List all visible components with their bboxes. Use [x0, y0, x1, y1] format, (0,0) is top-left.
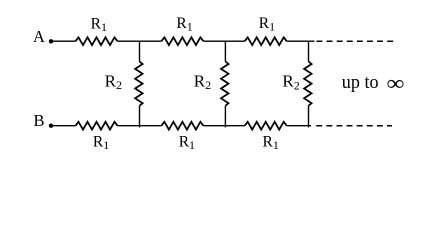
wire top rail segment R1a to R1b [118, 40, 162, 42]
svg-text:up to: up to [342, 71, 379, 93]
wire top rail segment A to R1a [51, 40, 76, 42]
wire vertical stub J1 top [139, 41, 141, 61]
resistor R2 right [304, 62, 312, 106]
dashed continuation top rail [317, 40, 394, 42]
wire vertical stub J2 top [224, 41, 226, 61]
resistor R2 middle [221, 62, 229, 106]
svg-text:B: B [34, 111, 45, 130]
svg-text:∞: ∞ [387, 72, 405, 96]
label up to infinity [342, 71, 379, 93]
wire vertical stub J1 bottom [139, 106, 141, 128]
dashed continuation bottom rail [316, 125, 392, 127]
wire bottom rail segment B to R1d [51, 125, 76, 127]
wire vertical stub J3 bottom [308, 106, 310, 128]
resistor R2 left [135, 62, 143, 106]
wire top rail segment R1c to dashed start [287, 40, 315, 42]
wire bottom rail segment R1f to dashed start [287, 125, 311, 127]
resistor R1 bottom-middle [161, 122, 203, 130]
wire top rail segment R1b to R1c [203, 40, 244, 42]
wire vertical stub J3 top [308, 41, 310, 61]
wire bottom rail segment R1d to R1e [118, 125, 162, 127]
wire bottom rail segment R1e to R1f [203, 125, 244, 127]
resistor R1 top-middle [161, 37, 203, 45]
wire vertical stub J2 bottom [224, 106, 226, 128]
resistor R1 bottom-left [76, 122, 118, 130]
resistor R1 top-right [245, 37, 287, 45]
svg-text:A: A [33, 27, 45, 46]
resistor R1 top-left [76, 37, 118, 45]
resistor R1 bottom-right [245, 122, 287, 130]
